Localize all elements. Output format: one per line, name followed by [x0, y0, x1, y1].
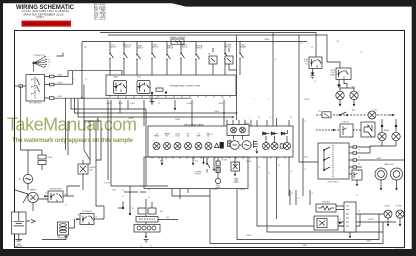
svg-text:16: 16 [301, 43, 303, 45]
svg-text:IND: IND [207, 136, 209, 138]
svg-text:BLK: BLK [338, 87, 341, 89]
wire: loop verticals bottom right [290, 190, 310, 205]
svg-text:16: 16 [259, 167, 261, 169]
svg-text:SWITCH: SWITCH [181, 47, 187, 49]
svg-text:16: 16 [312, 193, 314, 195]
svg-text:TEMP: TEMP [234, 180, 238, 182]
diode D2 [271, 132, 278, 135]
wire: hour meter stub [234, 157, 236, 166]
light switch pins [349, 146, 357, 175]
svg-text:87: 87 [122, 196, 124, 198]
lamp L12 [280, 143, 290, 150]
svg-text:58: 58 [150, 246, 152, 248]
wire: vertical x236.5 [236, 35, 238, 120]
svg-text:SWITCH: SWITCH [195, 173, 200, 175]
wire: y219 stub right [158, 219, 178, 221]
svg-text:10 WHT: 10 WHT [128, 118, 134, 120]
ground arrow HL1 [380, 188, 383, 191]
svg-text:14: 14 [96, 119, 98, 121]
wire: feed into IP top x257 [257, 118, 289, 126]
ground under K3 [310, 69, 314, 79]
wire: mid-left horizontal y113 [75, 98, 237, 113]
svg-text:SOL: SOL [305, 63, 308, 65]
arrow right of S13 [339, 222, 342, 224]
svg-text:KEY SWITCH: KEY SWITCH [29, 102, 41, 104]
svg-text:YEL - YELLOW: YEL - YELLOW [94, 19, 106, 21]
svg-text:16 BLU: 16 BLU [57, 96, 62, 98]
connector J1 fan-out [33, 57, 48, 72]
svg-text:OIL: OIL [155, 134, 158, 136]
svg-text:18: 18 [358, 157, 360, 159]
svg-text:30: 30 [77, 215, 79, 217]
svg-text:HI-TEMP: HI-TEMP [225, 45, 231, 47]
svg-text:RUN: RUN [137, 76, 140, 78]
svg-text:16: 16 [269, 117, 271, 119]
turn signal switch S13 [314, 216, 338, 230]
svg-text:16: 16 [258, 117, 260, 119]
enclosure top edge [82, 41, 307, 43]
svg-text:18: 18 [311, 47, 313, 49]
svg-text:16 PNK: 16 PNK [218, 103, 223, 105]
indicator lamp L9 [205, 143, 212, 150]
svg-text:16 WHT: 16 WHT [246, 235, 252, 237]
svg-text:50: 50 [45, 193, 47, 195]
switch S11 on dashed line [339, 112, 347, 116]
starter motor M2 [28, 192, 38, 202]
svg-text:86: 86 [122, 202, 124, 204]
label: sender chain [216, 185, 221, 189]
label: fan terminal codes [48, 57, 51, 69]
instrument panel box [148, 126, 293, 157]
svg-text:85: 85 [65, 205, 67, 207]
operational control unit U1 [106, 75, 236, 96]
svg-text:PRESS: PRESS [154, 136, 159, 138]
svg-text:B: B [48, 57, 49, 59]
svg-text:FUEL SOL: FUEL SOL [342, 122, 349, 124]
svg-text:16: 16 [358, 211, 360, 213]
IP top pin stubs [226, 118, 251, 126]
svg-text:S: S [49, 64, 50, 66]
svg-text:GLOW PLUGS: GLOW PLUGS [58, 238, 68, 240]
svg-text:SWITCH: SWITCH [167, 48, 173, 50]
svg-text:18 YEL: 18 YEL [118, 103, 123, 105]
svg-text:18 BLK: 18 BLK [130, 103, 135, 105]
wire: OCU pin drop x120 [119, 100, 121, 113]
battery B1 [12, 212, 27, 234]
svg-text:18: 18 [305, 121, 307, 123]
left scan strip [0, 0, 3, 256]
enclosure left drop [81, 42, 83, 99]
diode D1 [262, 132, 269, 135]
watermark: TakeManual.com [7, 115, 137, 135]
svg-text:SENSOR: SENSOR [225, 47, 232, 49]
ground arrow HL2 [395, 188, 398, 191]
svg-text:5E: 5E [155, 98, 157, 100]
ground under chain [144, 236, 149, 243]
wire: IP bottom drops with grounds [162, 157, 204, 163]
wire: x68 mid vertical [67, 121, 69, 155]
indicator lamp L8 [195, 143, 202, 150]
flasher box FL1 [316, 204, 336, 212]
key switch pins [45, 75, 55, 99]
relay K4 [336, 68, 351, 80]
wire color legend [94, 3, 106, 21]
wire: headlamp drops [381, 180, 397, 188]
fuse F2 wide [136, 217, 158, 223]
lamp L3 on dashed line [368, 111, 376, 119]
power relay K6 [80, 214, 94, 225]
svg-text:BLK: BLK [352, 87, 355, 89]
svg-text:14 BLK: 14 BLK [302, 245, 307, 247]
wire: OCU pin drop x192 [191, 100, 193, 126]
indicator lamp L6 [174, 143, 181, 150]
ground arrow IP1 [161, 163, 164, 166]
junction dots x130 [111, 186, 146, 215]
svg-text:F10: F10 [208, 54, 211, 56]
lower panel box [144, 157, 248, 189]
svg-text:2B: 2B [117, 98, 119, 100]
mini connector icon [228, 141, 231, 147]
svg-text:18 PUR: 18 PUR [246, 161, 252, 163]
ground arrow IP2 [192, 163, 195, 166]
relay K1 inside OCU [114, 81, 127, 94]
wire: key switch feed from border [15, 85, 26, 87]
wire: lamp drops [388, 218, 400, 224]
svg-text:6F: 6F [190, 98, 192, 100]
svg-text:R TURN: R TURN [396, 206, 402, 208]
svg-text:18 RED: 18 RED [175, 119, 181, 121]
wire: OCU pin drop x108 [107, 100, 109, 180]
svg-text:OPERATIONAL CONTROL UNIT: OPERATIONAL CONTROL UNIT [170, 84, 201, 87]
wire: relay K5 tails [44, 186, 80, 196]
wire: nested loop A [210, 189, 383, 244]
lamp labels [154, 133, 210, 138]
sender chain R2 [215, 157, 220, 184]
ground under CB2 [349, 232, 352, 238]
svg-text:FUEL: FUEL [304, 59, 308, 61]
svg-text:87: 87 [96, 217, 98, 219]
svg-text:SWITCH: SWITCH [137, 48, 143, 50]
wire: battery cables [15, 220, 66, 242]
svg-text:16 ORN: 16 ORN [186, 103, 191, 105]
svg-text:16: 16 [73, 79, 75, 81]
wire: CB2 right outputs [356, 214, 396, 222]
red banner [22, 21, 72, 27]
svg-text:30: 30 [122, 190, 124, 192]
wire: OCU pin drop x224 [223, 100, 225, 126]
small relay K8 [352, 170, 362, 180]
switch S14 inside lower panel [206, 158, 210, 173]
wire: lamps feed [340, 80, 354, 105]
label: hour meter [233, 178, 238, 185]
svg-text:18 GRN: 18 GRN [368, 219, 373, 221]
svg-text:BLK: BLK [195, 161, 198, 163]
svg-text:86: 86 [65, 194, 67, 196]
lamp L11 [271, 143, 278, 150]
label: under chain [140, 246, 152, 248]
ground under K4 [338, 80, 341, 88]
arrow mid dashes [333, 129, 336, 131]
ground arrow TL2 [399, 224, 402, 227]
connector CB2 [344, 202, 356, 232]
svg-text:12F: 12F [337, 41, 340, 43]
OCU bottom pin labels [106, 97, 225, 100]
tiny wire code labels [45, 39, 402, 222]
junction dots above IP [223, 112, 234, 118]
svg-text:TEMP: TEMP [197, 136, 201, 138]
svg-text:31: 31 [140, 246, 142, 248]
svg-text:16: 16 [269, 173, 271, 175]
battery icon (solid) [220, 142, 224, 149]
hour meter M1 [231, 162, 240, 176]
fuse FB1 top right of OCU [209, 56, 217, 64]
indicator lamp L4 [153, 143, 160, 150]
arrow into K5 [45, 195, 48, 197]
engine sender box E1 [78, 164, 88, 174]
wire: lamps L13 L14 down [370, 141, 396, 153]
svg-text:TILT SW: TILT SW [104, 183, 110, 185]
wire: chain verticals [145, 214, 147, 236]
svg-text:16: 16 [275, 59, 277, 61]
svg-text:16 BLK: 16 BLK [366, 241, 371, 243]
svg-text:TakeManual.com: TakeManual.com [7, 115, 137, 135]
svg-text:18: 18 [305, 169, 307, 171]
wire: mid-left horizontal y109 [71, 98, 146, 109]
svg-text:18: 18 [292, 193, 294, 195]
mini plug with ground [254, 141, 259, 154]
wire: IP drop x267 [267, 157, 383, 232]
lamp L14 [392, 132, 400, 140]
turn lamp L15 [384, 210, 392, 218]
svg-text:F15: F15 [224, 54, 227, 56]
wire: OCU feed link [68, 71, 122, 76]
wire: left vertical x84 [83, 85, 85, 151]
svg-text:CONNECTOR: CONNECTOR [33, 55, 45, 57]
wire label column [122, 190, 134, 210]
ground under OCU [150, 100, 155, 105]
schematic border frame [15, 31, 405, 248]
svg-text:ENGINE: ENGINE [90, 167, 96, 169]
gauge G1 (fuel) [229, 141, 241, 150]
wire: dashed links [316, 129, 361, 131]
svg-text:18: 18 [358, 164, 360, 166]
svg-text:INSTRUMENT PANEL: INSTRUMENT PANEL [184, 124, 205, 127]
wire: engine box drop [82, 160, 84, 190]
wire: switch to lamps [357, 146, 404, 174]
svg-text:16 BLU: 16 BLU [303, 157, 308, 159]
svg-text:L TURN: L TURN [384, 206, 389, 208]
lamp L10 [263, 143, 270, 150]
wire: drop x214 with arrow [213, 158, 215, 171]
wire: OCU pin drop x128 [127, 100, 129, 109]
label: battery [16, 243, 23, 248]
wire: lower panel bottom pins [172, 189, 210, 200]
wire: left cluster links [84, 150, 101, 164]
horn H1 [361, 122, 375, 137]
headlamp HL2 [391, 168, 403, 180]
svg-text:FUEL: FUEL [241, 45, 245, 47]
svg-text:SWITCH: SWITCH [196, 48, 202, 50]
relay K7 box [340, 124, 353, 137]
junction dot under K2 [151, 92, 153, 100]
svg-text:16 BLK: 16 BLK [212, 189, 217, 191]
svg-text:SWITCH: SWITCH [110, 47, 116, 49]
fuse F20 on dashed line [322, 112, 331, 118]
label: oil sw [194, 172, 201, 176]
arrow into K6 [77, 218, 80, 220]
svg-text:HAZARD FLASHER: HAZARD FLASHER [169, 36, 186, 39]
switch row above OCU [109, 42, 243, 76]
svg-text:LIGHT SWITCH: LIGHT SWITCH [327, 182, 339, 184]
lamp L2 [350, 91, 358, 99]
svg-text:18: 18 [291, 171, 293, 173]
warning triangle icon [215, 143, 219, 147]
wire: IP drop x257 [257, 157, 360, 226]
wire: drop x65.5 [65, 98, 67, 150]
svg-text:85: 85 [132, 208, 134, 210]
svg-text:BLK: BLK [160, 161, 163, 163]
ground arrow TL1 [387, 224, 390, 227]
svg-text:INTERLOCK: INTERLOCK [123, 45, 133, 47]
wire: long vertical x273 (harness) [272, 33, 274, 126]
wire: left bus entering mid cluster [84, 120, 101, 122]
svg-text:IND: IND [166, 136, 168, 138]
label: fuses [208, 54, 227, 56]
resistor R1 right of K2 [156, 88, 167, 93]
fuse F1 pair [138, 199, 156, 214]
wire: top bus 1 [100, 33, 316, 57]
wire: left vertical x90 [89, 121, 91, 160]
svg-text:DIODE: DIODE [48, 157, 53, 159]
label: relay K4 [330, 70, 336, 76]
top scan bar [0, 0, 416, 7]
arrow: accessory out [388, 114, 395, 117]
wire: x146 to fusebox [124, 186, 168, 192]
wire: K6 tails [69, 219, 105, 228]
lamp L1 [336, 91, 344, 99]
wire: x96 into glow cluster [96, 190, 104, 219]
light switch S12 [318, 143, 349, 179]
dual lamp sub-box [227, 125, 249, 136]
wire: alternator wires [22, 150, 42, 190]
glow plugs GP [58, 222, 69, 235]
wire: IP drop x289 [288, 157, 290, 196]
wire: long vertical x299 [299, 35, 318, 162]
svg-text:V-0017: V-0017 [36, 16, 45, 19]
svg-text:16 GRN: 16 GRN [106, 103, 111, 105]
diode stack D4 [38, 150, 46, 170]
alternator A1 [23, 174, 32, 183]
wire: alternator feed vertical [21, 86, 22, 150]
svg-text:16 RED: 16 RED [376, 158, 382, 160]
headlamp HL1 [375, 168, 387, 180]
label: relay K3 [304, 59, 308, 65]
ground under K8 [356, 180, 359, 186]
svg-text:30: 30 [148, 197, 150, 199]
indicator lamp L7 [185, 143, 192, 150]
svg-text:GLOW: GLOW [175, 134, 180, 136]
wire: x146 drop [145, 109, 147, 186]
diode D3 [281, 132, 288, 135]
svg-text:OIL PRESS: OIL PRESS [194, 172, 201, 174]
svg-text:SWITCH: SWITCH [152, 47, 158, 49]
svg-text:The watermark only appears on: The watermark only appears on this sampl… [12, 137, 134, 144]
svg-text:18 GRN: 18 GRN [239, 189, 244, 191]
wire: starter feeds [15, 190, 48, 211]
indicator lamp L5 [164, 143, 171, 150]
wire: dashed accessory line [316, 114, 388, 116]
wire: fuse drops [213, 48, 236, 75]
wire: left vertical x96 [95, 121, 97, 190]
title: WIRING SCHEMATIC [16, 4, 74, 19]
IP bottom pin ticks [152, 157, 285, 159]
wire: top bus 2 [108, 35, 340, 68]
misc tiny labels [84, 46, 371, 248]
OCU bottom pin ticks [110, 96, 230, 98]
wire: IP drop x276 [276, 157, 278, 219]
wire: OCU drop x175 with ground [174, 100, 177, 111]
relay K3 (fuel solenoid relay) [309, 57, 322, 69]
wire: lamp feeds inside IP [234, 130, 288, 143]
svg-text:SWITCH: SWITCH [124, 47, 130, 49]
battery ground [63, 228, 69, 238]
dots above relay K7 [381, 119, 397, 132]
svg-text:16: 16 [148, 190, 150, 192]
svg-text:16 GRY: 16 GRY [304, 99, 309, 101]
wire: key switch B terminal [54, 71, 68, 77]
wire: nested loop B [237, 189, 379, 240]
ground arrows under lamps [339, 104, 356, 107]
svg-text:18: 18 [158, 103, 160, 105]
relay K2 inside OCU [137, 81, 150, 94]
svg-text:18: 18 [360, 52, 362, 54]
turn lamp L16 [396, 210, 404, 218]
fuse FB2 [225, 56, 233, 64]
flasher F1 on top bus [171, 39, 184, 44]
switch row labels [110, 44, 247, 50]
svg-text:GLOW: GLOW [330, 70, 335, 72]
wire: mid-left horizontal y117 [78, 98, 233, 117]
wire: CB2 stubs left [336, 206, 344, 226]
svg-text:16 RED: 16 RED [57, 75, 63, 77]
wire: loop x360 [359, 214, 361, 226]
svg-text:18 WHT: 18 WHT [244, 123, 250, 125]
bottom scan bar [0, 249, 416, 256]
svg-text:IND: IND [187, 136, 189, 138]
starter relay K5 [48, 191, 63, 202]
wire: x303 vertical right of IP [302, 118, 304, 196]
svg-text:Printable Version? Click Here: Printable Version? Click Here [24, 22, 69, 26]
svg-text:SENDER: SENDER [240, 47, 247, 49]
svg-text:16 BLK: 16 BLK [214, 111, 219, 113]
ground arrow IP3 [202, 162, 205, 165]
right scan strip [412, 0, 416, 256]
watermark: sample notice [12, 137, 134, 144]
wire: key switch S terminal [54, 97, 190, 99]
svg-text:18: 18 [356, 195, 358, 197]
svg-text:SWITCH: SWITCH [233, 182, 238, 184]
svg-text:16 WHT: 16 WHT [57, 83, 63, 85]
svg-text:18: 18 [86, 79, 88, 81]
svg-text:10: 10 [315, 81, 317, 83]
svg-text:16: 16 [212, 134, 214, 136]
svg-text:18: 18 [278, 165, 280, 167]
svg-text:16: 16 [298, 198, 300, 200]
gauge G2 (temp) [241, 141, 252, 150]
wire: OCU pin drop x144 [143, 100, 145, 126]
connector block CB1 [134, 225, 160, 233]
svg-text:18: 18 [290, 117, 292, 119]
